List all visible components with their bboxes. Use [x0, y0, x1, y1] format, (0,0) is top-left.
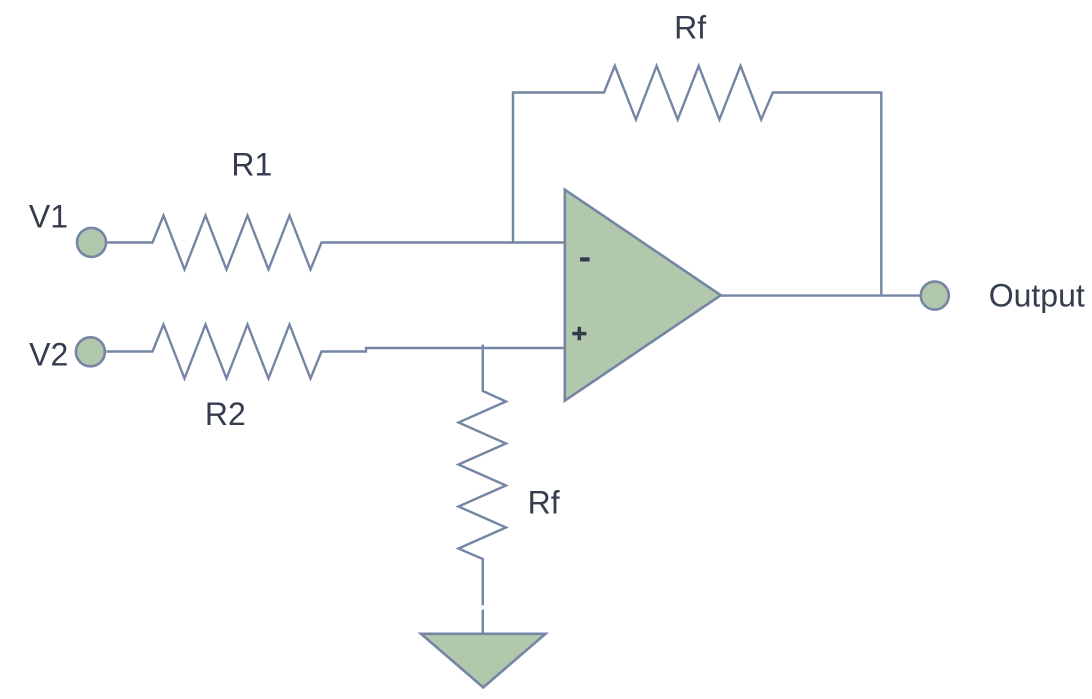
svg-text:V1: V1: [29, 199, 68, 235]
svg-text:Output: Output: [989, 277, 1085, 313]
svg-text:Rf: Rf: [528, 485, 560, 521]
svg-text:R1: R1: [231, 146, 272, 182]
svg-text:R2: R2: [205, 396, 246, 432]
svg-text:Rf: Rf: [674, 10, 706, 46]
svg-text:V2: V2: [29, 337, 68, 373]
